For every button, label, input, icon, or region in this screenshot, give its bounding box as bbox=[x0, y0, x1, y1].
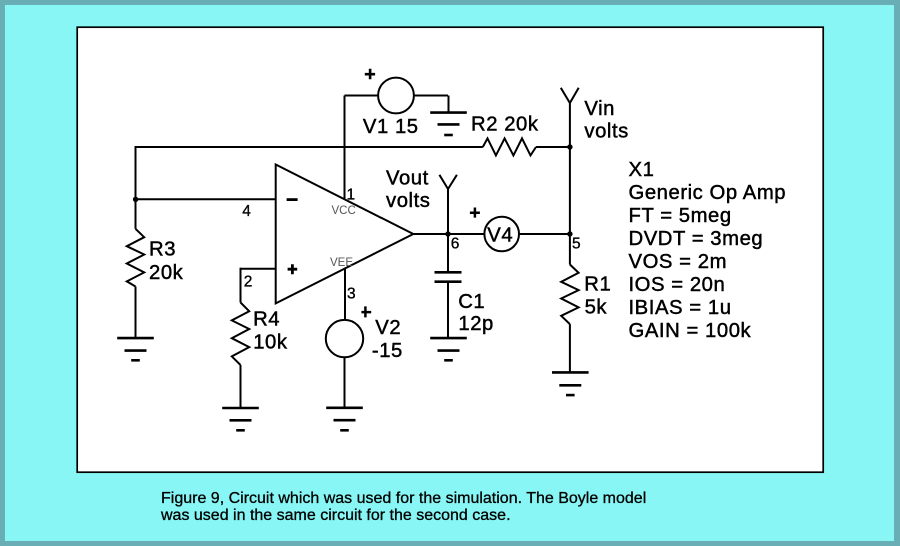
resistor R1 bbox=[561, 265, 578, 325]
svg-text:R3: R3 bbox=[149, 238, 176, 260]
svg-text:DVDT = 3meg: DVDT = 3meg bbox=[629, 228, 764, 250]
svg-text:4: 4 bbox=[242, 203, 251, 220]
wire R4 to ground bbox=[240, 365, 242, 408]
svg-text:R2 20k: R2 20k bbox=[471, 114, 539, 136]
op-amp X1 triangle bbox=[276, 165, 414, 304]
voltmeter V4 bbox=[484, 217, 519, 252]
resistor R4 bbox=[232, 303, 249, 366]
svg-text:12p: 12p bbox=[458, 313, 494, 335]
svg-text:volts: volts bbox=[584, 121, 628, 143]
svg-text:Generic Op Amp: Generic Op Amp bbox=[629, 182, 787, 204]
wire node5 down to R1 bbox=[569, 234, 571, 265]
wire V4 to node 5 bbox=[519, 233, 570, 235]
wire V1 to ground bbox=[448, 96, 450, 113]
svg-text:1: 1 bbox=[347, 187, 356, 204]
wire feedback top horizontal bbox=[136, 146, 483, 148]
svg-text:6: 6 bbox=[451, 235, 460, 252]
V1 polarity plus bbox=[365, 69, 375, 80]
wire node 6 down to C1 bbox=[447, 234, 449, 272]
svg-text:VEE: VEE bbox=[330, 257, 353, 269]
wire R1 to ground bbox=[569, 324, 571, 372]
op-amp non-inverting input plus bbox=[288, 264, 298, 274]
svg-text:20k: 20k bbox=[149, 262, 184, 284]
resistor R2 bbox=[483, 138, 536, 155]
wire pin3 VEE vertical bbox=[344, 268, 346, 320]
wire pin2 horizontal bbox=[241, 268, 276, 270]
wire Vout antenna stem bbox=[447, 189, 449, 234]
caption figure 9 bbox=[160, 490, 646, 524]
wire Vin node down to node 5 bbox=[569, 147, 571, 234]
wire V2 to ground bbox=[344, 357, 346, 408]
svg-text:R1: R1 bbox=[584, 273, 611, 295]
svg-text:V4: V4 bbox=[487, 225, 513, 247]
svg-text:10k: 10k bbox=[253, 332, 288, 354]
svg-text:2: 2 bbox=[244, 274, 253, 291]
svg-text:GAIN = 100k: GAIN = 100k bbox=[629, 320, 752, 342]
svg-text:IOS = 20n: IOS = 20n bbox=[629, 274, 726, 296]
wire pin4 input bbox=[136, 198, 276, 200]
svg-text:volts: volts bbox=[386, 190, 430, 212]
node junction at pin4 bbox=[133, 197, 138, 202]
ground below V1 bbox=[430, 113, 467, 135]
antenna Vin bbox=[561, 88, 579, 103]
wire C1 to ground bbox=[447, 282, 449, 338]
node junction Vin / R2 bbox=[567, 144, 572, 149]
resistor R3 bbox=[127, 229, 144, 287]
ground below C1 bbox=[430, 338, 467, 360]
svg-text:X1: X1 bbox=[629, 159, 655, 181]
svg-text:V1 15: V1 15 bbox=[363, 116, 419, 138]
antenna Vout bbox=[439, 175, 457, 189]
svg-text:Vout: Vout bbox=[386, 168, 429, 190]
wire V1 left bbox=[345, 95, 379, 97]
svg-text:5k: 5k bbox=[585, 297, 608, 319]
V2 polarity plus bbox=[361, 306, 371, 317]
wire pin2 down to R4 bbox=[240, 268, 242, 303]
node junction 6 bbox=[445, 231, 450, 236]
svg-text:R4: R4 bbox=[253, 309, 280, 331]
svg-text:5: 5 bbox=[572, 236, 581, 253]
svg-text:-15: -15 bbox=[372, 340, 403, 362]
wire Vin vertical bbox=[569, 103, 571, 147]
svg-text:VOS = 2m: VOS = 2m bbox=[629, 251, 728, 273]
wire left vertical node4 column bbox=[135, 146, 137, 229]
svg-text:Figure 9, Circuit which was us: Figure 9, Circuit which was used for the… bbox=[161, 490, 646, 507]
ground below R3 bbox=[117, 338, 154, 360]
svg-text:C1: C1 bbox=[458, 291, 485, 313]
ground below V2 bbox=[326, 408, 363, 431]
wire op-amp output to node 6 bbox=[413, 233, 484, 235]
ground below R4 bbox=[222, 408, 259, 430]
ground below R1 bbox=[552, 372, 589, 395]
node junction 5 bbox=[567, 231, 572, 236]
voltage source V2 bbox=[326, 320, 363, 357]
wire V1 right bbox=[414, 95, 448, 97]
svg-text:was used in the same circuit f: was used in the same circuit for the sec… bbox=[160, 507, 511, 524]
svg-text:Vin: Vin bbox=[584, 98, 615, 120]
wire R3 to ground bbox=[135, 287, 137, 339]
label X1 parameters bbox=[629, 159, 787, 342]
wire R2 to Vin node bbox=[536, 146, 570, 148]
svg-text:FT = 5meg: FT = 5meg bbox=[629, 205, 732, 227]
svg-text:3: 3 bbox=[347, 285, 356, 302]
capacitor C1 bbox=[435, 272, 462, 281]
op-amp inverting input minus bbox=[287, 198, 298, 201]
voltage source V1 bbox=[378, 78, 414, 114]
V4 polarity plus bbox=[470, 208, 480, 218]
svg-text:VCC: VCC bbox=[332, 205, 356, 217]
svg-text:V2: V2 bbox=[375, 317, 401, 339]
svg-text:IBIAS = 1u: IBIAS = 1u bbox=[629, 297, 732, 319]
wire pin1 VCC vertical bbox=[344, 96, 346, 200]
